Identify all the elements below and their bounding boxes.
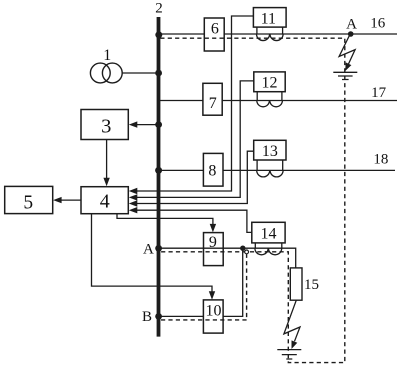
breaker box 6 xyxy=(204,18,224,51)
CT 11 pins and loops xyxy=(257,27,284,40)
svg-text:16: 16 xyxy=(370,16,386,32)
svg-text:3: 3 xyxy=(101,115,111,137)
svg-text:6: 6 xyxy=(211,21,219,38)
arrowhead into box 4 top xyxy=(103,178,109,187)
CT 12 pins and loops xyxy=(257,92,283,107)
junction dot box3 tap xyxy=(155,121,162,128)
ground 1 xyxy=(333,72,357,79)
svg-text:5: 5 xyxy=(23,193,33,214)
wire line 16 xyxy=(159,33,397,35)
svg-text:2: 2 xyxy=(155,0,163,16)
resistor 15 xyxy=(290,268,302,300)
lightning fault arrow below resistor 15 xyxy=(284,300,300,341)
arrowhead of lightning 1 xyxy=(345,62,351,71)
CT box 11 xyxy=(253,8,286,28)
arrowhead of lightning 2 xyxy=(292,340,298,349)
svg-text:A: A xyxy=(143,241,154,257)
signal wire CT12 to box 4 xyxy=(131,81,254,197)
box 4 xyxy=(81,187,128,214)
junction circle on dashed path xyxy=(245,250,249,254)
svg-text:10: 10 xyxy=(206,303,222,320)
svg-text:8: 8 xyxy=(208,162,216,179)
arrowhead signal row 3 xyxy=(129,200,138,206)
svg-text:13: 13 xyxy=(262,143,278,160)
wire line 18 xyxy=(159,169,395,171)
CT 14 pins and loops xyxy=(255,243,282,255)
breaker box 7 xyxy=(203,83,222,115)
svg-text:A: A xyxy=(346,16,357,32)
svg-text:14: 14 xyxy=(261,226,277,243)
CT box 14 xyxy=(252,222,285,243)
arrow busbar to box 3 xyxy=(132,124,157,126)
junction dot line16 xyxy=(155,31,162,38)
svg-text:15: 15 xyxy=(304,277,319,293)
signal wire CT14 to box 4 xyxy=(131,210,252,232)
svg-text:B: B xyxy=(142,309,152,325)
svg-text:17: 17 xyxy=(371,85,387,101)
wire transformer to busbar xyxy=(122,72,157,74)
wire line 17 xyxy=(159,100,397,102)
junction dot node A xyxy=(155,245,162,252)
arrowhead into box 5 xyxy=(53,197,62,203)
arrowhead signal row 2 xyxy=(129,194,138,200)
breaker box 10 xyxy=(203,300,223,333)
breaker box 9 xyxy=(204,233,224,266)
lightning fault arrow at line 16 xyxy=(339,35,355,66)
junction dot transformer xyxy=(155,70,162,77)
trip wire box 4 to breaker 9 xyxy=(117,214,213,229)
svg-text:7: 7 xyxy=(209,95,217,112)
junction dot node before CT14 xyxy=(240,246,245,251)
arrowhead signal row 4 xyxy=(129,207,138,213)
box 3 xyxy=(81,110,128,140)
svg-text:12: 12 xyxy=(262,75,278,92)
CT box 13 xyxy=(254,140,286,160)
junction dot fault point A on line 16 xyxy=(348,31,354,37)
busbar 2 xyxy=(157,17,161,337)
arrowhead into breaker 10 xyxy=(209,291,215,300)
box 5 xyxy=(5,186,53,213)
arrow box 4 to box 5 xyxy=(56,199,81,201)
arrowhead into breaker 9 xyxy=(210,224,216,233)
dashed branch from node B xyxy=(160,254,246,320)
dashed fault-current path loop xyxy=(160,38,344,362)
arrowhead signal row 1 xyxy=(129,188,138,194)
ground 2 xyxy=(277,350,301,359)
svg-text:9: 9 xyxy=(209,234,217,251)
CT 13 pins and loops xyxy=(257,160,283,177)
svg-text:4: 4 xyxy=(100,191,110,213)
junction dot line18 xyxy=(155,167,162,174)
svg-text:11: 11 xyxy=(261,11,276,28)
wire feeder A row xyxy=(159,248,296,268)
svg-text:18: 18 xyxy=(373,152,388,168)
breaker box 8 xyxy=(203,153,223,186)
arrow box 3 to box 4 xyxy=(106,140,108,184)
trip wire box 4 to breaker 10 xyxy=(92,214,213,297)
signal wire CT13 to box 4 xyxy=(131,151,253,203)
wire from breaker 10 up to node xyxy=(223,248,243,316)
CT box 12 xyxy=(254,72,285,92)
arrowhead into box 3 xyxy=(129,121,138,127)
signal wire CT11 to box 4 xyxy=(131,16,253,191)
junction dot node B xyxy=(155,313,162,320)
wire feeder B row xyxy=(159,315,203,317)
transformer 1 xyxy=(90,63,110,83)
svg-text:1: 1 xyxy=(103,47,111,64)
